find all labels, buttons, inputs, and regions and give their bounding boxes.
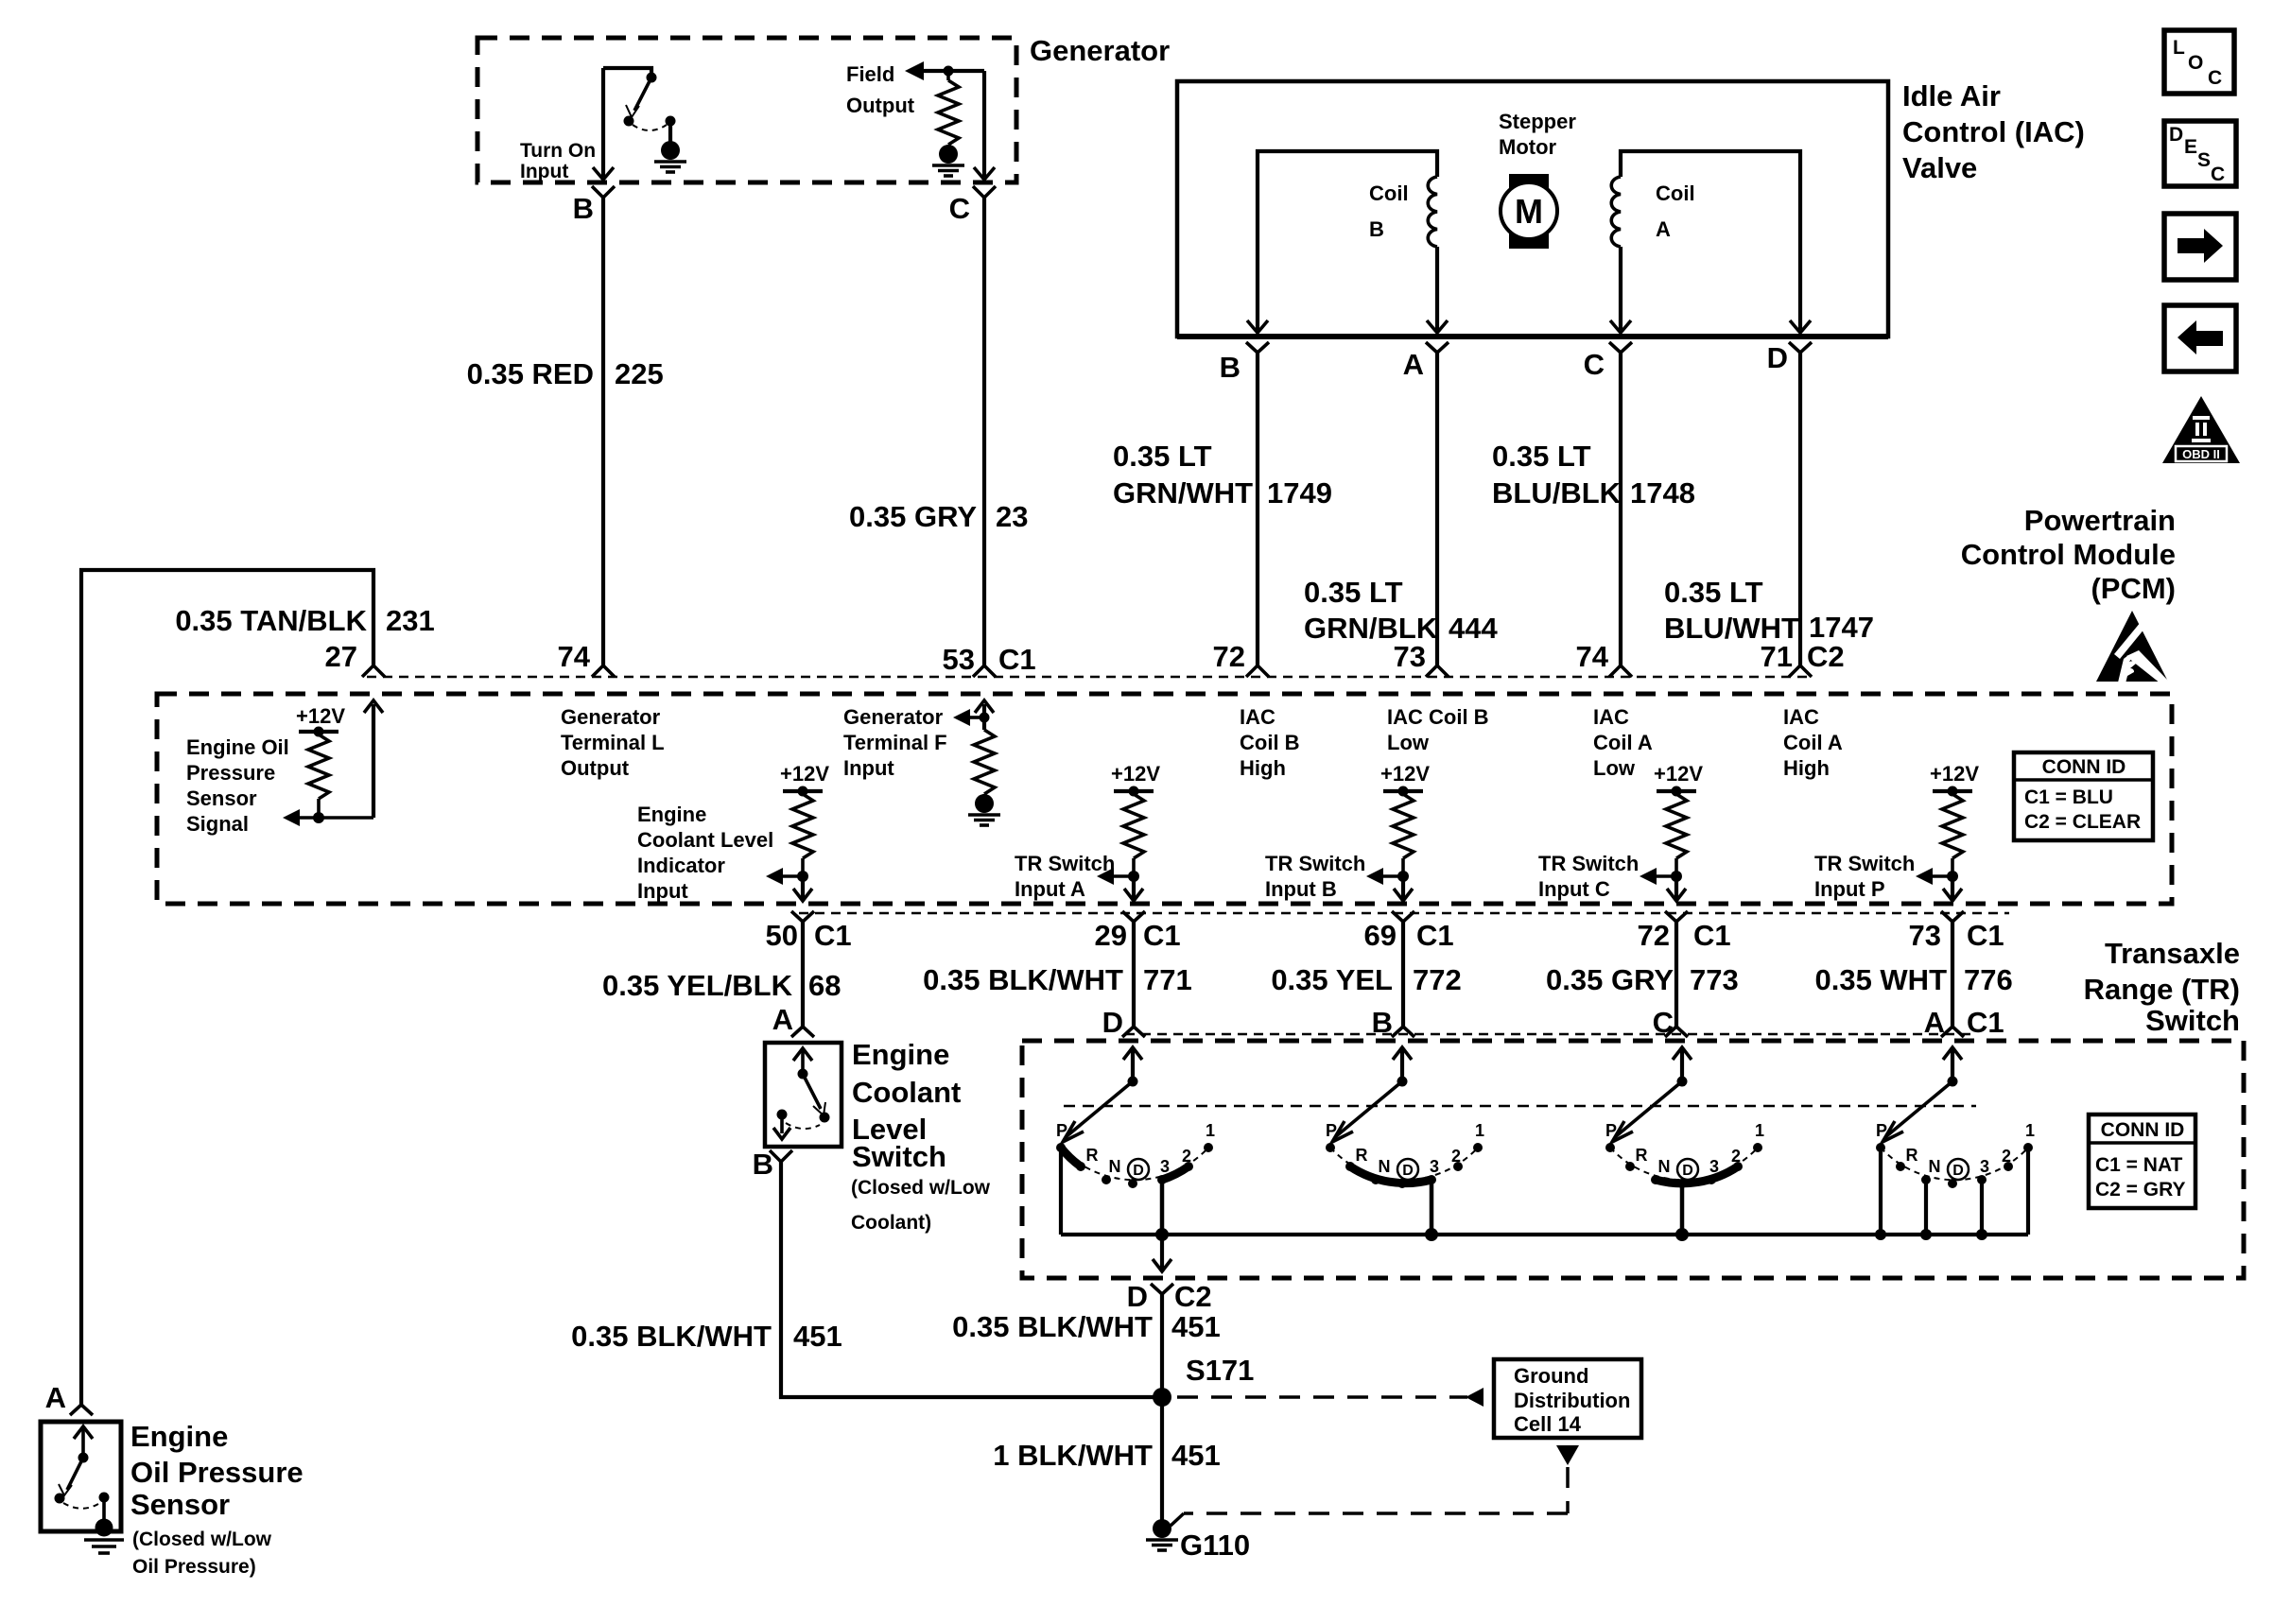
svg-text:TR Switch: TR Switch [1015, 852, 1115, 875]
svg-text:D: D [1127, 1280, 1148, 1313]
svg-text:IAC Coil B: IAC Coil B [1387, 705, 1489, 729]
svg-text:IAC: IAC [1240, 705, 1275, 729]
svg-text:A: A [1403, 348, 1424, 381]
svg-text:High: High [1783, 756, 1830, 780]
svg-text:GRN/WHT: GRN/WHT [1113, 476, 1253, 510]
svg-text:C: C [2208, 67, 2222, 89]
svg-text:Engine: Engine [637, 803, 706, 826]
svg-text:0.35 RED: 0.35 RED [467, 357, 594, 390]
svg-text:C2: C2 [1174, 1280, 1212, 1313]
svg-text:53: 53 [943, 643, 975, 676]
svg-text:Distribution: Distribution [1514, 1389, 1630, 1412]
svg-text:69: 69 [1364, 919, 1397, 952]
svg-text:0.35 TAN/BLK: 0.35 TAN/BLK [175, 604, 367, 637]
svg-text:444: 444 [1449, 612, 1498, 645]
svg-text:C: C [949, 192, 970, 225]
svg-text:1748: 1748 [1630, 476, 1695, 510]
svg-text:772: 772 [1413, 963, 1462, 996]
svg-text:Engine Oil: Engine Oil [186, 735, 289, 759]
svg-text:Oil Pressure: Oil Pressure [130, 1456, 304, 1489]
svg-text:Powertrain: Powertrain [2024, 504, 2176, 537]
svg-text:Coil: Coil [1656, 181, 1695, 205]
svg-text:Stepper: Stepper [1499, 110, 1576, 133]
svg-text:Oil Pressure): Oil Pressure) [132, 1556, 256, 1578]
svg-text:Input: Input [520, 161, 568, 182]
svg-text:C2: C2 [1807, 640, 1845, 673]
svg-text:74: 74 [558, 640, 591, 673]
svg-text:73: 73 [1394, 640, 1426, 673]
svg-text:S: S [2197, 149, 2211, 171]
svg-text:Ground: Ground [1514, 1364, 1588, 1388]
svg-text:Coolant): Coolant) [851, 1212, 931, 1234]
svg-text:Sensor: Sensor [130, 1488, 230, 1521]
svg-text:C1: C1 [1693, 919, 1731, 952]
svg-text:Control (IAC): Control (IAC) [1902, 115, 2085, 148]
svg-text:0.35 LT: 0.35 LT [1113, 440, 1212, 473]
svg-text:+12V: +12V [296, 704, 345, 728]
svg-text:C1: C1 [1143, 919, 1181, 952]
svg-text:D: D [1102, 1006, 1123, 1039]
svg-text:Terminal F: Terminal F [843, 731, 947, 754]
svg-text:0.35 BLK/WHT: 0.35 BLK/WHT [571, 1320, 772, 1353]
svg-text:OBD II: OBD II [2182, 447, 2220, 461]
svg-text:Indicator: Indicator [637, 854, 725, 877]
svg-text:C1: C1 [1967, 1006, 2004, 1039]
svg-text:Low: Low [1593, 756, 1636, 780]
svg-text:IAC: IAC [1593, 705, 1629, 729]
svg-text:B: B [1220, 351, 1241, 384]
svg-text:0.35 LT: 0.35 LT [1664, 576, 1763, 609]
svg-text:Terminal L: Terminal L [561, 731, 665, 754]
svg-text:C1: C1 [998, 643, 1036, 676]
svg-text:231: 231 [386, 604, 435, 637]
svg-text:Generator: Generator [843, 705, 944, 729]
svg-text:Output: Output [561, 756, 630, 780]
svg-text:B: B [573, 192, 594, 225]
svg-text:29: 29 [1095, 919, 1127, 952]
svg-text:C2 = GRY: C2 = GRY [2095, 1179, 2186, 1201]
svg-text:Input B: Input B [1265, 877, 1337, 901]
svg-text:Coil A: Coil A [1783, 731, 1843, 754]
svg-text:776: 776 [1964, 963, 2013, 996]
svg-text:O: O [2188, 52, 2203, 74]
svg-text:M: M [1515, 192, 1543, 231]
svg-text:71: 71 [1761, 640, 1793, 673]
svg-text:451: 451 [1171, 1310, 1221, 1343]
svg-text:225: 225 [615, 357, 664, 390]
svg-text:C2 = CLEAR: C2 = CLEAR [2024, 811, 2141, 833]
svg-text:Output: Output [846, 94, 915, 117]
svg-text:C1: C1 [1967, 919, 2004, 952]
svg-text:High: High [1240, 756, 1286, 780]
svg-text:Field: Field [846, 62, 894, 86]
svg-text:Generator: Generator [561, 705, 661, 729]
svg-text:Valve: Valve [1902, 151, 1977, 184]
svg-text:C: C [1584, 348, 1605, 381]
svg-text:G110: G110 [1180, 1529, 1250, 1562]
svg-text:1 BLK/WHT: 1 BLK/WHT [993, 1439, 1153, 1472]
svg-text:(Closed w/Low: (Closed w/Low [132, 1529, 272, 1550]
svg-text:Engine: Engine [852, 1038, 949, 1071]
svg-text:TR Switch: TR Switch [1538, 852, 1639, 875]
svg-text:A: A [1656, 217, 1671, 241]
svg-text:0.35 YEL: 0.35 YEL [1271, 963, 1393, 996]
svg-text:Engine: Engine [130, 1420, 228, 1453]
svg-text:Low: Low [1387, 731, 1430, 754]
svg-text:Switch: Switch [2145, 1004, 2240, 1037]
svg-text:(Closed w/Low: (Closed w/Low [851, 1177, 991, 1199]
svg-text:Cell 14: Cell 14 [1514, 1412, 1582, 1436]
svg-text:CONN ID: CONN ID [2042, 756, 2126, 778]
svg-text:Transaxle: Transaxle [2105, 937, 2240, 970]
svg-text:Input C: Input C [1538, 877, 1610, 901]
svg-text:Pressure: Pressure [186, 761, 275, 785]
svg-text:Motor: Motor [1499, 135, 1557, 159]
svg-text:Generator: Generator [1030, 34, 1170, 67]
svg-text:0.35 BLK/WHT: 0.35 BLK/WHT [923, 963, 1123, 996]
svg-text:Input: Input [637, 879, 688, 903]
svg-text:451: 451 [1171, 1439, 1221, 1472]
svg-text:Input P: Input P [1814, 877, 1885, 901]
svg-text:771: 771 [1143, 963, 1192, 996]
svg-text:TR Switch: TR Switch [1814, 852, 1915, 875]
svg-text:72: 72 [1638, 919, 1670, 952]
svg-text:BLU/BLK: BLU/BLK [1492, 476, 1622, 510]
svg-text:TR Switch: TR Switch [1265, 852, 1365, 875]
svg-text:0.35 LT: 0.35 LT [1492, 440, 1591, 473]
svg-text:0.35 LT: 0.35 LT [1304, 576, 1403, 609]
svg-text:Range (TR): Range (TR) [2084, 973, 2240, 1006]
svg-text:1747: 1747 [1809, 611, 1874, 644]
svg-text:68: 68 [808, 969, 841, 1002]
svg-text:773: 773 [1690, 963, 1739, 996]
svg-text:27: 27 [325, 640, 357, 673]
svg-text:Sensor: Sensor [186, 786, 257, 810]
svg-text:Input A: Input A [1015, 877, 1085, 901]
svg-text:Input: Input [843, 756, 894, 780]
svg-text:50: 50 [766, 919, 798, 952]
svg-text:D: D [2169, 124, 2183, 146]
svg-text:23: 23 [996, 500, 1028, 533]
svg-text:Coolant: Coolant [852, 1076, 961, 1109]
svg-text:Control Module: Control Module [1961, 538, 2176, 571]
svg-text:Turn On: Turn On [520, 140, 596, 162]
svg-text:Idle Air: Idle Air [1902, 79, 2001, 112]
svg-text:A: A [772, 1003, 793, 1036]
svg-text:Coolant Level: Coolant Level [637, 828, 773, 852]
svg-text:S171: S171 [1186, 1354, 1254, 1387]
svg-text:B: B [1369, 217, 1384, 241]
svg-text:0.35 GRY: 0.35 GRY [1546, 963, 1674, 996]
svg-text:C1: C1 [1416, 919, 1454, 952]
svg-text:E: E [2184, 136, 2197, 158]
svg-text:Switch: Switch [852, 1140, 946, 1173]
svg-text:D: D [1767, 341, 1788, 374]
svg-text:Coil A: Coil A [1593, 731, 1653, 754]
svg-text:C1 = NAT: C1 = NAT [2095, 1154, 2183, 1176]
svg-text:74: 74 [1576, 640, 1609, 673]
svg-text:A: A [45, 1381, 66, 1414]
svg-text:Signal: Signal [186, 812, 249, 836]
svg-text:Coil: Coil [1369, 181, 1409, 205]
svg-text:72: 72 [1213, 640, 1245, 673]
svg-text:451: 451 [793, 1320, 842, 1353]
svg-text:0.35 YEL/BLK: 0.35 YEL/BLK [602, 969, 793, 1002]
svg-text:0.35 WHT: 0.35 WHT [1814, 963, 1947, 996]
svg-text:0.35 BLK/WHT: 0.35 BLK/WHT [952, 1310, 1153, 1343]
svg-text:0.35 GRY: 0.35 GRY [849, 500, 977, 533]
svg-text:1749: 1749 [1267, 476, 1332, 510]
svg-text:CONN ID: CONN ID [2101, 1119, 2185, 1141]
svg-text:73: 73 [1909, 919, 1941, 952]
svg-text:C1 = BLU: C1 = BLU [2024, 786, 2113, 808]
svg-text:L: L [2173, 37, 2185, 59]
svg-text:(PCM): (PCM) [2091, 572, 2176, 605]
svg-text:Coil B: Coil B [1240, 731, 1300, 754]
svg-text:IAC: IAC [1783, 705, 1819, 729]
svg-text:C1: C1 [814, 919, 852, 952]
svg-text:C: C [2211, 164, 2225, 185]
